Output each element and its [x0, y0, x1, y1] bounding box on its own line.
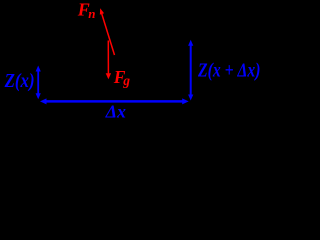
svg-text:g: g [122, 73, 130, 88]
label Fn [77, 0, 96, 21]
dimension arrow Z(x+dx) right (vertical double-headed) [188, 40, 193, 101]
svg-text:Z(x): Z(x) [4, 70, 35, 92]
dimension arrow dx bottom (horizontal double-headed) [40, 98, 189, 104]
dimension arrow Z(x) left (vertical double-headed) [36, 66, 41, 100]
label dx [105, 102, 126, 122]
svg-text:Δx: Δx [105, 102, 126, 121]
svg-text:Z(x + Δx): Z(x + Δx) [197, 60, 260, 82]
label Z(x) [4, 70, 35, 92]
label Fg [113, 67, 131, 88]
label Z(x+dx) [197, 60, 260, 82]
svg-text:n: n [88, 6, 95, 21]
force arrow Fg (vertical, pointing down) [106, 41, 111, 80]
force arrow Fn (slanted, pointing up-left) [100, 8, 115, 55]
